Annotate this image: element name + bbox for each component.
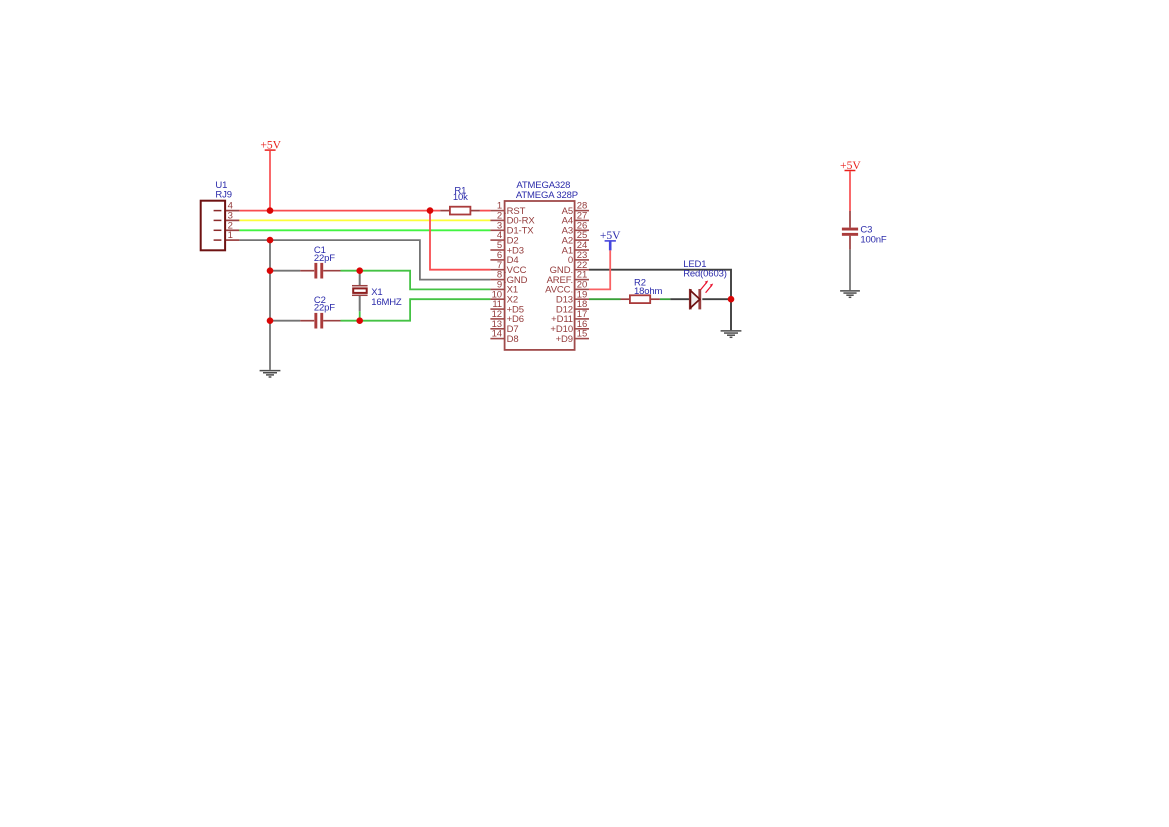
svg-text:16MHZ: 16MHZ: [371, 297, 402, 308]
IC pin 16 stub (+D10): [575, 328, 589, 330]
power +5V symbol above RJ9: [260, 138, 281, 151]
IC pin 19 stub (D13): [575, 298, 589, 300]
ground symbol under LED: [721, 331, 742, 337]
op-amp/IC ATMEGA328 body: [505, 201, 575, 350]
connector U1 RJ9 body: [201, 201, 225, 251]
wire green net IC pin19 D13 to R2: [589, 298, 621, 300]
junction dot +5V / pin4 net: [267, 207, 274, 214]
LED1 light arrows: [701, 281, 714, 293]
IC pin 22 stub (GND.): [575, 269, 589, 271]
wire gray net R2 to LED anode: [670, 298, 689, 300]
IC pin 20 stub (AVCC.): [575, 288, 589, 290]
IC pin 13 stub (D7): [490, 328, 504, 330]
wire gray ground branch vertical: [269, 240, 271, 370]
junction dot X1 bottom: [356, 317, 363, 324]
resistor R2: [621, 295, 660, 303]
capacitor C3: [842, 211, 858, 250]
wire red net +5V to IC pin20 AVCC: [589, 250, 610, 289]
IC pin 8 stub (GND): [490, 279, 504, 281]
capacitor C1: [270, 263, 341, 279]
svg-text:22pF: 22pF: [314, 303, 335, 314]
IC pin 2 stub (D0-RX): [490, 219, 504, 221]
svg-text:D8: D8: [507, 334, 519, 345]
wire red net +5V to C3: [849, 171, 851, 211]
IC pin 10 stub (X2): [490, 298, 504, 300]
crystal X1: [352, 271, 368, 321]
svg-text:+5V: +5V: [600, 229, 621, 242]
wire gray LED cathode to junction: [702, 298, 731, 300]
LED LED1: [689, 289, 701, 309]
svg-text:1: 1: [228, 230, 233, 241]
IC pin 7 stub (VCC): [490, 269, 504, 271]
IC pin 24 stub (A1): [575, 249, 589, 251]
svg-text:18ohm: 18ohm: [634, 286, 663, 297]
ground symbol under RJ9 net: [260, 371, 281, 377]
IC pin 28 stub (A5): [575, 210, 589, 212]
IC pin 14 stub (D8): [490, 338, 504, 340]
junction dot C1 row left: [267, 267, 274, 274]
power +5V symbol (blue) for AVCC: [600, 229, 621, 251]
svg-text:10k: 10k: [453, 192, 468, 203]
junction dot X1 top: [356, 267, 363, 274]
RJ9 pin stub 1: [226, 239, 240, 241]
wire red net RJ9 pin4 to R1 junction: [239, 210, 440, 212]
IC pin 21 stub (AREF.): [575, 279, 589, 281]
svg-text:100nF: 100nF: [860, 235, 887, 246]
resistor R1: [440, 207, 480, 215]
wire green net RJ9 pin2 to IC pin3 D1-TX: [239, 229, 490, 231]
IC pin 23 stub (0): [575, 259, 589, 261]
wire green net C2 to IC pin10 X2: [341, 299, 491, 321]
wire +5V vertical to pin4 net: [269, 151, 271, 211]
IC pin 26 stub (A3): [575, 229, 589, 231]
IC pin 12 stub (+D6): [490, 318, 504, 320]
svg-text:+D9: +D9: [556, 334, 573, 345]
IC pin 9 stub (X1): [490, 288, 504, 290]
junction dot R1 / VCC branch: [427, 207, 434, 214]
wire red net R1 to IC pin1: [480, 210, 491, 212]
RJ9 pin stub 2: [226, 229, 240, 231]
svg-text:15: 15: [577, 329, 587, 340]
IC pin 17 stub (+D11): [575, 318, 589, 320]
IC pin 15 stub (+D9): [575, 338, 589, 340]
power +5V symbol above C3: [840, 159, 861, 172]
svg-text:ATMEGA 328P: ATMEGA 328P: [516, 190, 578, 201]
junction dot C2 row left: [267, 317, 274, 324]
svg-text:RJ9: RJ9: [215, 190, 231, 201]
wire gray net RJ9 pin1 to IC pin8 GND: [239, 240, 490, 280]
svg-text:22pF: 22pF: [314, 253, 335, 264]
IC pin 1 stub (RST): [490, 210, 504, 212]
wire green net C1 to IC pin9 X1: [341, 271, 491, 290]
IC pin 4 stub (D2): [490, 239, 504, 241]
IC pin 27 stub (A4): [575, 219, 589, 221]
svg-text:14: 14: [492, 329, 502, 340]
IC pin 11 stub (+D5): [490, 308, 504, 310]
junction dot gray ground branch: [267, 237, 274, 244]
wire green net R2 to LED: [660, 298, 670, 300]
capacitor C2: [270, 313, 341, 329]
junction dot LED cathode / ground: [728, 296, 735, 303]
ground symbol under C3: [840, 291, 860, 297]
IC pin 3 stub (D1-TX): [490, 229, 504, 231]
wire red R1 junction to IC pin7 VCC: [430, 211, 490, 270]
wire gray C3 to ground: [849, 250, 851, 291]
IC pin 6 stub (D4): [490, 259, 504, 261]
IC pin 18 stub (D12): [575, 308, 589, 310]
svg-text:Red(0603): Red(0603): [683, 269, 727, 280]
RJ9 pin stub 3: [226, 219, 240, 221]
RJ9 pin stub 4: [226, 210, 240, 212]
wire yellow net RJ9 pin3 to IC pin2 D0-RX: [239, 219, 490, 221]
wire black net IC pin22 GND. to LED cathode junction and ground: [589, 270, 731, 331]
IC pin 25 stub (A2): [575, 239, 589, 241]
IC pin 5 stub (+D3): [490, 249, 504, 251]
